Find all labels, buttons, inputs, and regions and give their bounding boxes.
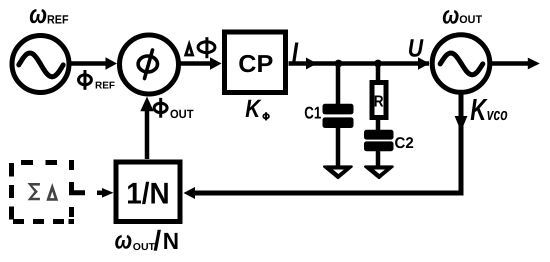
svg-text:/: /	[153, 225, 161, 256]
svg-text:I: I	[292, 37, 299, 69]
capacitor C1	[323, 64, 354, 169]
divider 1/N box	[116, 162, 180, 222]
svg-text:C2: C2	[395, 135, 414, 152]
svg-text:K: K	[470, 93, 488, 127]
svg-text:CP: CP	[238, 51, 273, 78]
svg-text:vco: vco	[487, 105, 508, 124]
svg-text:C1: C1	[304, 104, 321, 123]
output arrow	[492, 58, 540, 70]
label K_vco	[470, 93, 507, 127]
svg-text:OUT: OUT	[170, 107, 194, 121]
wire OSC1 to phase detector	[69, 57, 117, 69]
svg-text:K: K	[245, 95, 262, 123]
label Phi_REF	[79, 70, 116, 92]
feedback wire VCO to divider	[184, 94, 468, 199]
label Phi_OUT	[154, 98, 194, 121]
VCO circle	[432, 35, 490, 93]
phase detector PD circle	[120, 35, 179, 94]
label delta-Phi	[184, 37, 215, 58]
charge pump CP box	[225, 32, 286, 93]
svg-text:ω: ω	[442, 1, 459, 29]
label omega_OUT/N	[115, 225, 180, 256]
wire CP to VCO	[289, 57, 430, 69]
label omega_OUT	[442, 1, 482, 29]
svg-text:OUT: OUT	[459, 14, 482, 26]
capacitor C2	[364, 118, 394, 168]
svg-text:OUT: OUT	[133, 242, 155, 253]
reference oscillator OSC1	[12, 36, 69, 93]
svg-text:ω: ω	[29, 0, 47, 29]
svg-text:R: R	[374, 93, 384, 110]
svg-text:1/N: 1/N	[126, 178, 169, 211]
svg-text:N: N	[163, 228, 179, 254]
svg-text:REF: REF	[95, 81, 115, 92]
ground 2	[365, 167, 392, 178]
wire PD to CP	[180, 57, 222, 69]
node junction 2	[374, 60, 382, 68]
ground 1	[324, 167, 351, 178]
dashed arrow sigma-delta to divider	[97, 188, 114, 198]
wire divider to PD	[140, 97, 153, 160]
resistor R	[372, 64, 386, 118]
label omega_REF	[29, 0, 68, 29]
node junction 1	[335, 60, 343, 68]
label K_Phi	[245, 95, 269, 123]
sigma-delta modulator box (dashed)	[12, 163, 86, 222]
svg-text:REF: REF	[47, 13, 69, 27]
svg-text:ω: ω	[115, 226, 133, 254]
svg-text:U: U	[408, 35, 424, 63]
